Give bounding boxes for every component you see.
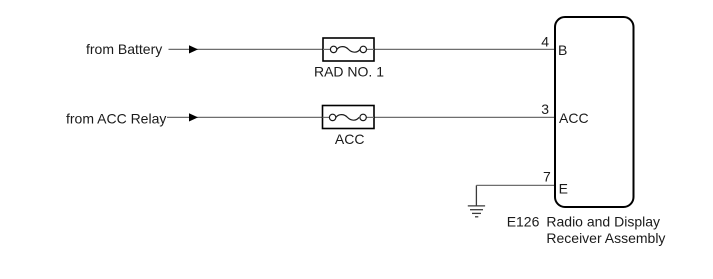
svg-text:4: 4 [541,33,549,49]
svg-text:B: B [558,42,567,58]
svg-text:E: E [559,180,568,196]
svg-text:RAD NO. 1: RAD NO. 1 [314,63,384,79]
svg-text:E126: E126 [507,213,540,229]
svg-text:from Battery: from Battery [86,41,162,57]
svg-text:3: 3 [541,101,549,117]
svg-text:7: 7 [543,169,551,185]
svg-text:Receiver Assembly: Receiver Assembly [546,230,665,246]
svg-text:Radio and Display: Radio and Display [546,213,660,229]
svg-text:ACC: ACC [559,110,589,126]
svg-text:ACC: ACC [335,131,365,147]
svg-text:from ACC Relay: from ACC Relay [66,110,166,126]
